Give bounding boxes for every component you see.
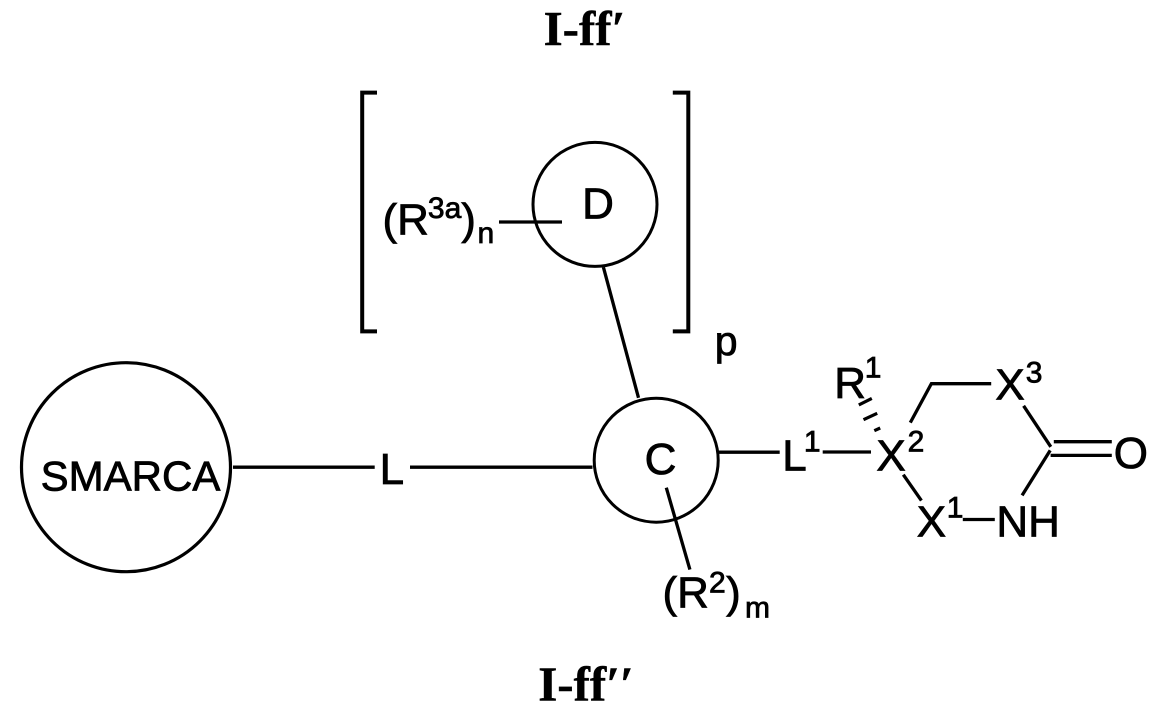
svg-text:): ) (726, 569, 741, 618)
svg-text:I-ff′′: I-ff′′ (538, 657, 634, 711)
svg-text:(R: (R (663, 569, 709, 618)
svg-text:2: 2 (709, 567, 726, 600)
svg-text:p: p (715, 318, 738, 364)
svg-text:NH: NH (996, 498, 1060, 547)
svg-text:C: C (645, 435, 677, 484)
svg-text:O: O (1114, 429, 1148, 478)
svg-text:): ) (461, 195, 476, 244)
svg-text:m: m (745, 591, 770, 624)
svg-text:2: 2 (908, 426, 925, 459)
svg-text:X: X (876, 432, 905, 481)
svg-text:1: 1 (947, 492, 964, 525)
svg-text:1: 1 (804, 426, 821, 459)
svg-text:R: R (834, 359, 866, 408)
svg-text:SMARCA: SMARCA (41, 453, 221, 500)
svg-text:I-ff′: I-ff′ (544, 1, 626, 56)
svg-text:n: n (478, 217, 495, 250)
svg-text:X: X (917, 498, 946, 547)
svg-text:X: X (995, 361, 1024, 410)
svg-text:3a: 3a (428, 192, 462, 225)
svg-text:1: 1 (865, 351, 882, 384)
svg-text:L: L (380, 445, 404, 494)
svg-text:(R: (R (383, 196, 429, 245)
svg-text:3: 3 (1026, 356, 1043, 389)
svg-text:D: D (582, 180, 614, 229)
